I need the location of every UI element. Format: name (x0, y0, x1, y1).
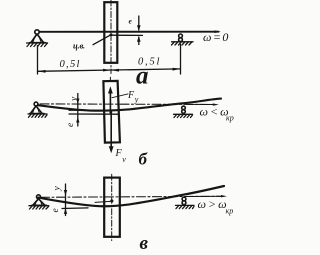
svg-text:в: в (140, 233, 149, 254)
y dimension column (fig b) (77, 94, 79, 127)
disk centerline stub top (fig b) (109, 77, 111, 81)
svg-text:v: v (122, 155, 126, 164)
c.g. tick line (fig b) (69, 113, 119, 115)
svg-text:ω = 0: ω = 0 (203, 30, 228, 44)
axis solid tail (fig v) (190, 195, 223, 197)
disk (fig b) (103, 81, 120, 143)
disk centerline (fig a) (110, 0, 112, 74)
c.g. dot (fig b) (109, 111, 112, 114)
support pin left (fig v) (32, 195, 47, 206)
y dimension column (fig v) (65, 184, 67, 216)
svg-text:0,5l: 0,5l (60, 59, 81, 70)
svg-text:ω < ω: ω < ω (200, 105, 229, 119)
svg-text:ц.в.: ц.в. (73, 41, 85, 51)
label Fy with pointer (fig b) (112, 94, 128, 98)
ground hatch right (fig v) (176, 205, 195, 208)
support pin left (fig b) (30, 102, 45, 114)
c.g. dot (fig v) (110, 199, 113, 202)
svg-text:у: у (70, 96, 80, 102)
svg-text:F: F (127, 90, 135, 101)
extension line right (fig a) (180, 45, 182, 75)
support roller right (fig a) (179, 34, 183, 42)
svg-text:у: у (134, 95, 139, 104)
disk centerline (fig v) (111, 174, 113, 240)
ground hatch left (fig a) (27, 43, 48, 47)
pointer line c.v. (fig a) (93, 35, 110, 44)
svg-text:е: е (66, 123, 76, 127)
deflected shaft curve (fig b) (38, 99, 221, 111)
disk (fig a) (104, 2, 117, 63)
dim arrowheads (fig a) (38, 68, 181, 73)
extension line left (fig a) (37, 46, 39, 75)
ground hatch left (fig v) (29, 206, 49, 209)
svg-text:ω > ω: ω > ω (198, 197, 227, 211)
c.g. dot (fig a) (110, 33, 113, 36)
svg-text:кр: кр (226, 206, 234, 215)
c.g. level line (fig a) (113, 34, 143, 36)
c.g. short line (fig v) (95, 201, 110, 202)
force Fv arrow (fig b) (110, 113, 112, 149)
svg-text:у: у (53, 186, 63, 192)
ground hatch right (fig a) (172, 42, 194, 45)
ground hatch left (fig b) (28, 114, 47, 117)
dimension line 0,5l (fig a) (38, 69, 181, 71)
shaft-center tick line (fig b) (69, 109, 122, 111)
arrowhead axis end (fig v) (221, 195, 227, 197)
shaft-center tick (fig v) (62, 207, 88, 210)
svg-text:кр: кр (226, 113, 234, 122)
disk (fig v) (104, 178, 120, 237)
shaft axis line (fig a) (39, 31, 218, 33)
original axis dash-dot line (fig v) (41, 196, 224, 197)
ground hatch right (fig b) (174, 114, 193, 117)
arrowhead axis end (fig b) (213, 103, 219, 105)
force Fy arrow (fig b) (109, 91, 111, 111)
bent axis dash-dot line (fig b) (40, 103, 216, 106)
svg-text:F: F (115, 148, 123, 159)
e dimension arrows (fig a) (138, 16, 140, 45)
svg-text:а: а (136, 63, 149, 90)
arrowhead shaft end (fig a) (215, 30, 221, 33)
support roller right (fig v) (182, 197, 186, 205)
svg-text:е: е (51, 208, 61, 212)
support roller right (fig b) (182, 106, 186, 113)
deflected shaft curve (fig v) (39, 186, 225, 206)
axis solid tail (fig b) (188, 103, 216, 105)
support pin left (fig a) (30, 30, 46, 43)
